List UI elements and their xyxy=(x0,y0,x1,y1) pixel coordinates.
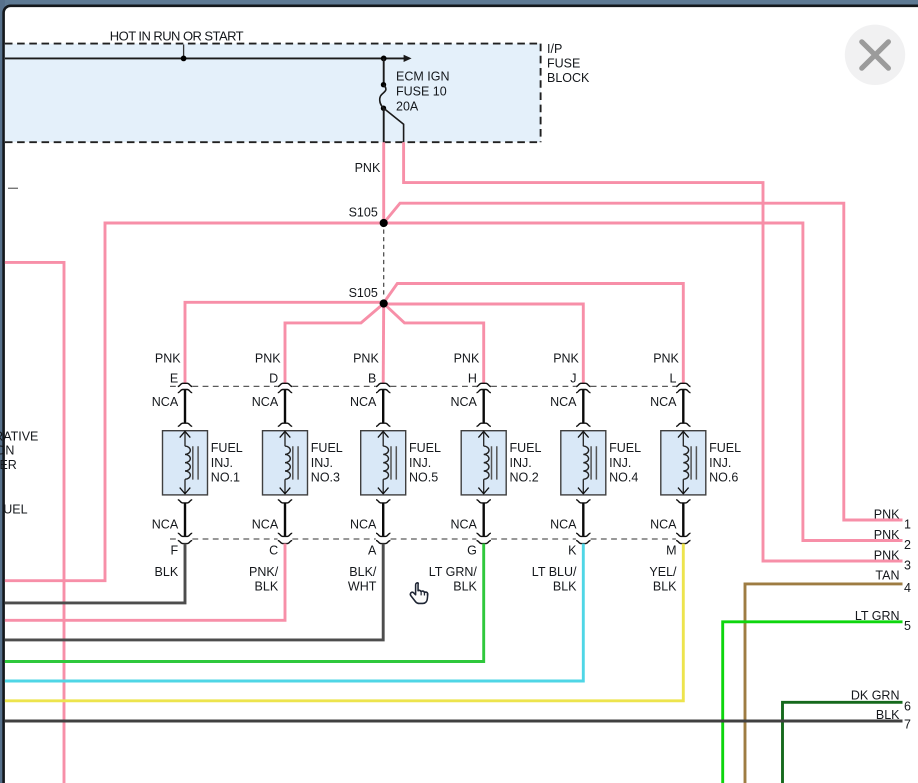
connector at injector case top xyxy=(477,423,491,426)
I/P fuse block dashed border xyxy=(5,44,541,143)
svg-text:NO.2: NO.2 xyxy=(510,470,539,484)
injector core bars xyxy=(193,446,198,479)
connector at injector case bottom xyxy=(576,500,590,503)
connector halves at pin J xyxy=(576,383,590,386)
upper connector row dashed line xyxy=(170,385,676,387)
wire PNK from left component down left edge xyxy=(5,262,64,783)
svg-text:FUSE: FUSE xyxy=(547,57,580,71)
wire BLK circuit 7 xyxy=(5,720,903,723)
svg-text:NCA: NCA xyxy=(450,518,477,532)
wire NCA upper xyxy=(483,390,485,424)
wire NCA upper xyxy=(284,390,286,424)
svg-text:LT GRN/: LT GRN/ xyxy=(429,565,478,579)
svg-text:FUSE 10: FUSE 10 xyxy=(396,84,447,98)
svg-text:BLK: BLK xyxy=(653,579,677,593)
svg-text:5: 5 xyxy=(904,619,911,633)
wire NCA lower xyxy=(582,503,584,536)
injector internal wire and arrows xyxy=(280,431,291,437)
wire PNK from splice S105 to left side down xyxy=(5,223,384,581)
svg-text:YEL/: YEL/ xyxy=(649,565,677,579)
fuel injector NO.4 box xyxy=(561,431,606,495)
fuse ECM IGN FUSE 10 20A element xyxy=(381,82,386,87)
wire NCA lower xyxy=(682,503,684,536)
connector halves at pin M xyxy=(676,533,690,536)
svg-text:ER: ER xyxy=(0,458,17,472)
wire PNK splice to injector pin L xyxy=(384,284,684,384)
svg-text:NCA: NCA xyxy=(550,518,577,532)
svg-text:FUEL: FUEL xyxy=(709,441,741,455)
svg-text:H: H xyxy=(468,371,477,385)
connector halves at pin D xyxy=(278,383,292,386)
svg-text:BLK: BLK xyxy=(155,565,179,579)
svg-text:DK GRN: DK GRN xyxy=(851,688,900,702)
svg-text:PNK: PNK xyxy=(874,548,900,562)
connector at injector case top xyxy=(278,423,292,426)
connector halves at pin F xyxy=(178,533,192,536)
svg-text:INJ.: INJ. xyxy=(609,456,631,470)
svg-text:G: G xyxy=(467,543,477,557)
svg-text:BLK: BLK xyxy=(255,579,279,593)
wire PNK splice to injector pin B xyxy=(382,304,385,384)
svg-text:NO.4: NO.4 xyxy=(609,470,638,484)
svg-text:NCA: NCA xyxy=(252,395,279,409)
svg-text:NO.3: NO.3 xyxy=(311,470,340,484)
close button xyxy=(845,25,905,85)
connector halves at pin A xyxy=(376,533,390,536)
svg-text:ECM IGN: ECM IGN xyxy=(396,70,449,84)
wire from feed down to fuse xyxy=(383,58,385,84)
arrow hot feed xyxy=(404,55,412,62)
svg-text:1: 1 xyxy=(904,517,911,531)
svg-text:NCA: NCA xyxy=(152,395,179,409)
svg-text:S105: S105 xyxy=(349,206,378,220)
I/P fuse block box fill xyxy=(5,44,541,143)
fuel injector NO.3 box xyxy=(263,431,308,495)
wire NCA upper xyxy=(184,390,186,424)
svg-text:FUEL: FUEL xyxy=(311,441,343,455)
svg-text:PNK: PNK xyxy=(874,507,900,521)
svg-text:ON: ON xyxy=(0,444,14,458)
connector halves at pin C xyxy=(278,533,292,536)
injector solenoid coil xyxy=(484,446,489,479)
wire colored output pin G xyxy=(5,544,484,662)
svg-text:BLK: BLK xyxy=(553,579,577,593)
svg-text:BLK: BLK xyxy=(876,708,900,722)
svg-text:INJ.: INJ. xyxy=(211,456,233,470)
svg-text:K: K xyxy=(568,543,577,557)
svg-text:WHT: WHT xyxy=(348,579,377,593)
injector solenoid coil xyxy=(683,446,688,479)
svg-text:INJ.: INJ. xyxy=(311,456,333,470)
svg-text:NO.5: NO.5 xyxy=(409,470,438,484)
injector solenoid coil xyxy=(383,446,388,479)
svg-text:F: F xyxy=(171,543,179,557)
svg-text:PNK: PNK xyxy=(874,528,900,542)
injector core bars xyxy=(492,446,497,479)
wire PNK circuit 2 from splice S105 to right edge xyxy=(384,223,903,541)
svg-text:PNK: PNK xyxy=(553,351,579,365)
svg-text:L: L xyxy=(670,371,677,385)
svg-text:NCA: NCA xyxy=(152,518,179,532)
injector internal wire and arrows xyxy=(378,431,389,437)
wire colored output pin M xyxy=(5,544,683,701)
svg-text:LT GRN: LT GRN xyxy=(855,609,900,623)
wire NCA lower xyxy=(483,503,485,536)
wire colored output pin K xyxy=(5,544,583,682)
svg-text:20A: 20A xyxy=(396,100,419,114)
svg-text:TAN: TAN xyxy=(875,569,899,583)
svg-text:FUEL: FUEL xyxy=(510,441,542,455)
wire TAN circuit 4 xyxy=(745,584,903,783)
injector core bars xyxy=(591,446,596,479)
wire NCA upper xyxy=(682,390,684,424)
svg-text:NCA: NCA xyxy=(650,518,677,532)
svg-text:PNK: PNK xyxy=(255,351,281,365)
lower connector row dashed line xyxy=(170,538,676,540)
svg-text:6: 6 xyxy=(904,699,911,713)
wire fuse output straight (black inside block) xyxy=(383,108,385,142)
splice S105 lower xyxy=(380,299,388,307)
left component box edge fragment xyxy=(8,187,18,189)
fuel injector NO.6 box xyxy=(661,431,706,495)
svg-text:BLK/: BLK/ xyxy=(349,565,377,579)
wire PNK circuit 3 from fuse branch to right edge xyxy=(404,142,903,561)
injector solenoid coil xyxy=(583,446,588,479)
svg-text:C: C xyxy=(269,543,278,557)
connector at injector case top xyxy=(376,423,390,426)
junction dot at fuse tap xyxy=(381,56,387,62)
wire PNK circuit 1 from splice S105 diagonal to right edge xyxy=(384,203,903,520)
svg-text:I/P: I/P xyxy=(547,42,562,56)
svg-text:INJ.: INJ. xyxy=(510,456,532,470)
wire PNK splice to injector pin E xyxy=(185,302,384,383)
injector internal wire and arrows xyxy=(180,431,191,437)
injector core bars xyxy=(691,446,696,479)
svg-text:INJ.: INJ. xyxy=(709,456,731,470)
injector internal wire and arrows xyxy=(578,431,589,437)
svg-text:NCA: NCA xyxy=(650,395,677,409)
svg-text:NCA: NCA xyxy=(350,518,377,532)
wire PNK splice to injector pin J xyxy=(384,304,584,384)
injector solenoid coil xyxy=(285,446,290,479)
junction dot xyxy=(181,56,187,62)
wire PNK splice to injector pin D xyxy=(285,304,384,384)
wire PNK splice to injector pin H xyxy=(384,304,484,384)
svg-text:PNK: PNK xyxy=(155,351,181,365)
connector halves at pin H xyxy=(477,383,491,386)
wire PNK fuse to splice S105 xyxy=(382,142,385,223)
connector halves at pin B xyxy=(376,383,390,386)
connector halves at pin K xyxy=(576,533,590,536)
wire DK GRN circuit 6 xyxy=(783,702,903,783)
window background top bar xyxy=(0,0,918,7)
svg-text:B: B xyxy=(368,371,376,385)
svg-text:NCA: NCA xyxy=(550,395,577,409)
connector at injector case bottom xyxy=(477,500,491,503)
fuel injector NO.2 box xyxy=(461,431,506,495)
connector at injector case top xyxy=(676,423,690,426)
svg-text:PNK: PNK xyxy=(353,351,379,365)
wire NCA lower xyxy=(382,503,384,536)
svg-text:4: 4 xyxy=(904,581,911,595)
mouse hand cursor xyxy=(410,583,427,604)
connector halves at pin E xyxy=(178,383,192,386)
connector at injector case bottom xyxy=(676,500,690,503)
injector internal wire and arrows xyxy=(678,431,689,437)
wire NCA lower xyxy=(284,503,286,536)
injector core bars xyxy=(391,446,396,479)
svg-text:UEL: UEL xyxy=(3,503,27,517)
wire colored output pin C xyxy=(5,544,285,621)
connector at injector case bottom xyxy=(278,500,292,503)
connector at injector case top xyxy=(576,423,590,426)
svg-text:NO.1: NO.1 xyxy=(211,470,240,484)
svg-text:D: D xyxy=(269,371,278,385)
svg-text:FUEL: FUEL xyxy=(609,441,641,455)
svg-text:BLOCK: BLOCK xyxy=(547,71,590,85)
svg-text:NCA: NCA xyxy=(252,518,279,532)
injector core bars xyxy=(293,446,298,479)
wire colored output pin F xyxy=(5,544,185,603)
svg-text:NCA: NCA xyxy=(450,395,477,409)
wire NCA lower xyxy=(184,503,186,536)
svg-text:RATIVE: RATIVE xyxy=(0,429,38,443)
svg-text:A: A xyxy=(368,543,377,557)
connector halves at pin G xyxy=(477,533,491,536)
svg-text:HOT IN RUN OR START: HOT IN RUN OR START xyxy=(110,29,244,44)
svg-text:FUEL: FUEL xyxy=(409,441,441,455)
svg-text:J: J xyxy=(570,371,576,385)
svg-text:NCA: NCA xyxy=(350,395,377,409)
svg-text:3: 3 xyxy=(904,558,911,572)
svg-text:FUEL: FUEL xyxy=(211,441,243,455)
svg-text:NO.6: NO.6 xyxy=(709,470,738,484)
svg-text:2: 2 xyxy=(904,538,911,552)
connector at injector case top xyxy=(178,423,192,426)
window background left strip xyxy=(0,0,5,783)
svg-text:BLK: BLK xyxy=(453,579,477,593)
wire tick from dashed border to feed xyxy=(183,45,185,59)
svg-text:PNK: PNK xyxy=(653,351,679,365)
wire fuse output branch diagonal (black inside block) xyxy=(384,108,404,142)
injector internal wire and arrows xyxy=(478,431,489,437)
connector halves at pin L xyxy=(676,383,690,386)
svg-text:PNK: PNK xyxy=(454,351,480,365)
svg-text:LT BLU/: LT BLU/ xyxy=(532,565,577,579)
connector at injector case bottom xyxy=(376,500,390,503)
svg-text:INJ.: INJ. xyxy=(409,456,431,470)
svg-text:M: M xyxy=(666,543,676,557)
svg-text:7: 7 xyxy=(904,718,911,732)
svg-text:PNK/: PNK/ xyxy=(249,565,279,579)
splice S105 upper xyxy=(380,219,388,227)
connector at injector case bottom xyxy=(178,500,192,503)
wire hot feed horizontal xyxy=(5,57,404,59)
wire colored output pin A xyxy=(5,544,383,640)
dashed splice link xyxy=(383,230,385,298)
wire NCA upper xyxy=(582,390,584,424)
injector solenoid coil xyxy=(185,446,190,479)
fuel injector NO.1 box xyxy=(163,431,208,495)
svg-text:S105: S105 xyxy=(349,286,378,300)
wire LT GRN circuit 5 xyxy=(723,622,903,783)
fuel injector NO.5 box xyxy=(361,431,406,495)
svg-text:PNK: PNK xyxy=(355,161,381,175)
svg-text:E: E xyxy=(170,371,178,385)
wire NCA upper xyxy=(382,390,384,424)
